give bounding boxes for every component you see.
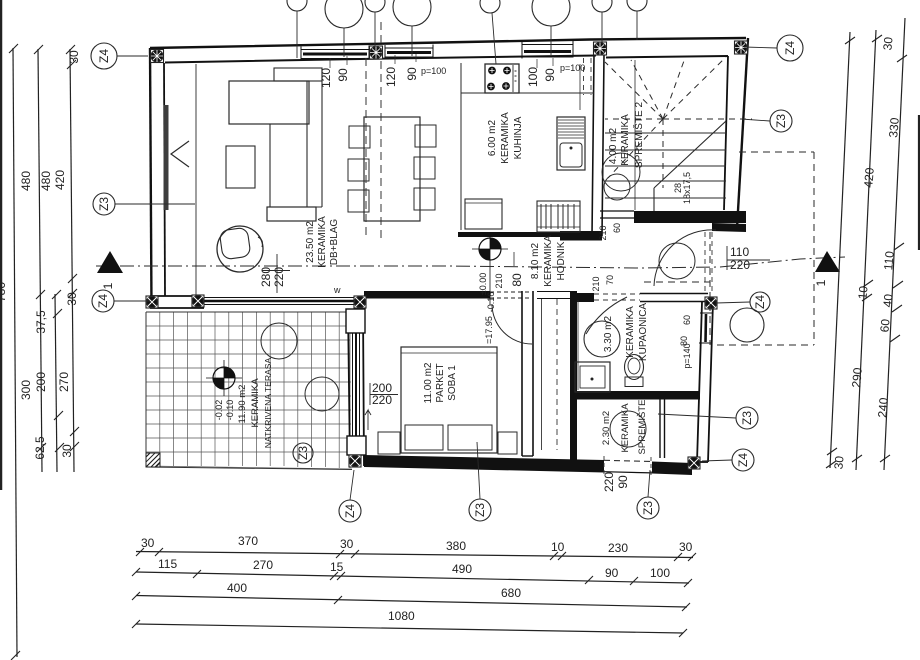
svg-text:Z3: Z3 bbox=[473, 503, 487, 517]
svg-text:15: 15 bbox=[330, 560, 344, 574]
svg-text:Z4: Z4 bbox=[736, 453, 750, 467]
svg-text:23.50 m2: 23.50 m2 bbox=[305, 221, 316, 263]
svg-text:680: 680 bbox=[501, 586, 521, 600]
svg-text:-0.02: -0.02 bbox=[214, 400, 224, 421]
svg-text:10: 10 bbox=[551, 540, 565, 554]
svg-text:=17.95: =17.95 bbox=[484, 316, 494, 344]
svg-text:210: 210 bbox=[591, 276, 601, 291]
svg-text:30: 30 bbox=[60, 444, 74, 458]
svg-text:Z3: Z3 bbox=[641, 501, 655, 515]
svg-text:30: 30 bbox=[831, 455, 846, 470]
svg-text:1080: 1080 bbox=[388, 609, 415, 623]
svg-text:60: 60 bbox=[877, 318, 892, 333]
svg-text:90: 90 bbox=[543, 68, 557, 82]
svg-text:110: 110 bbox=[730, 245, 749, 259]
svg-text:KUHINJA: KUHINJA bbox=[513, 116, 524, 159]
svg-text:70: 70 bbox=[605, 275, 615, 285]
svg-text:115: 115 bbox=[158, 557, 177, 571]
svg-text:KERAMIKA: KERAMIKA bbox=[543, 235, 554, 287]
svg-text:6.00 m2: 6.00 m2 bbox=[487, 119, 498, 156]
svg-text:380: 380 bbox=[446, 539, 466, 553]
svg-text:KERAMIKA: KERAMIKA bbox=[250, 378, 261, 428]
svg-text:10: 10 bbox=[855, 285, 870, 300]
svg-text:KERAMIKA: KERAMIKA bbox=[620, 114, 631, 166]
svg-text:PARKET: PARKET bbox=[435, 363, 446, 402]
svg-text:60: 60 bbox=[682, 315, 692, 325]
svg-text:480: 480 bbox=[39, 171, 53, 191]
svg-text:Z4: Z4 bbox=[783, 41, 797, 55]
svg-text:Z3: Z3 bbox=[296, 446, 310, 460]
svg-text:p=100: p=100 bbox=[560, 63, 585, 73]
svg-text:30: 30 bbox=[340, 537, 354, 551]
svg-text:220: 220 bbox=[272, 267, 286, 287]
svg-text:300: 300 bbox=[19, 380, 33, 400]
svg-text:NATKRIVENA TERASA: NATKRIVENA TERASA bbox=[263, 358, 273, 449]
svg-text:270: 270 bbox=[57, 372, 71, 392]
svg-text:1: 1 bbox=[101, 282, 115, 289]
svg-text:60: 60 bbox=[612, 223, 622, 233]
svg-text:330: 330 bbox=[886, 117, 902, 138]
svg-text:p=140: p=140 bbox=[682, 343, 692, 368]
svg-text:420: 420 bbox=[53, 170, 67, 190]
svg-text:220: 220 bbox=[372, 393, 392, 407]
svg-text:11.90 m2: 11.90 m2 bbox=[237, 385, 248, 424]
svg-text:8.10 m2: 8.10 m2 bbox=[530, 242, 541, 279]
svg-text:w: w bbox=[333, 285, 341, 295]
svg-text:18x17,5: 18x17,5 bbox=[682, 172, 692, 204]
svg-text:80: 80 bbox=[510, 273, 524, 287]
svg-text:37,5: 37,5 bbox=[34, 310, 48, 334]
svg-text:30: 30 bbox=[880, 36, 895, 51]
svg-text:Z3: Z3 bbox=[774, 114, 788, 128]
svg-text:KERAMIKA: KERAMIKA bbox=[625, 306, 636, 358]
svg-text:30: 30 bbox=[141, 536, 155, 550]
svg-text:SPREMIŠTE 2: SPREMIŠTE 2 bbox=[632, 102, 645, 169]
svg-text:40: 40 bbox=[880, 293, 895, 308]
svg-text:30: 30 bbox=[65, 292, 79, 306]
svg-text:110: 110 bbox=[881, 250, 897, 271]
svg-text:90: 90 bbox=[616, 475, 630, 489]
svg-text:1: 1 bbox=[814, 279, 828, 286]
svg-text:DB+BLAG: DB+BLAG bbox=[329, 219, 340, 266]
svg-text:Z3: Z3 bbox=[97, 197, 111, 211]
svg-text:KUPAONICA: KUPAONICA bbox=[638, 303, 649, 361]
svg-text:100: 100 bbox=[650, 566, 670, 580]
svg-text:480: 480 bbox=[19, 171, 33, 191]
svg-text:370: 370 bbox=[238, 534, 258, 548]
svg-text:4.00 m2: 4.00 m2 bbox=[608, 127, 619, 164]
svg-text:200: 200 bbox=[34, 372, 48, 392]
svg-text:KERAMIKA: KERAMIKA bbox=[500, 112, 511, 164]
svg-text:120: 120 bbox=[319, 68, 333, 88]
svg-text:Z3: Z3 bbox=[740, 411, 754, 425]
svg-text:Z4: Z4 bbox=[97, 49, 111, 63]
svg-text:2.30 m2: 2.30 m2 bbox=[601, 411, 612, 445]
svg-text:490: 490 bbox=[452, 562, 472, 576]
svg-text:780: 780 bbox=[0, 282, 8, 302]
svg-text:120: 120 bbox=[384, 67, 398, 87]
svg-text:400: 400 bbox=[227, 581, 247, 595]
svg-text:90: 90 bbox=[605, 566, 619, 580]
svg-text:90: 90 bbox=[336, 68, 350, 82]
svg-text:420: 420 bbox=[861, 167, 877, 188]
svg-text:30: 30 bbox=[679, 540, 693, 554]
svg-text:-0.16: -0.16 bbox=[486, 292, 496, 313]
svg-text:210: 210 bbox=[598, 225, 608, 240]
svg-text:p=100: p=100 bbox=[421, 66, 446, 76]
svg-text:3.30 m2: 3.30 m2 bbox=[603, 315, 614, 352]
svg-text:-0.10: -0.10 bbox=[225, 400, 235, 421]
svg-text:100: 100 bbox=[526, 67, 540, 87]
svg-text:HODNIK: HODNIK bbox=[556, 241, 567, 280]
svg-text:KERAMIKA: KERAMIKA bbox=[317, 216, 328, 268]
svg-text:270: 270 bbox=[253, 558, 273, 572]
svg-text:62,5: 62,5 bbox=[33, 436, 47, 460]
svg-text:Z4: Z4 bbox=[96, 294, 110, 308]
svg-text:280: 280 bbox=[259, 267, 273, 287]
svg-text:290: 290 bbox=[849, 367, 865, 388]
svg-text:KERAMIKA: KERAMIKA bbox=[620, 403, 631, 453]
svg-text:SOBA 1: SOBA 1 bbox=[447, 365, 458, 401]
svg-text:90: 90 bbox=[405, 67, 419, 81]
svg-text:210: 210 bbox=[494, 273, 504, 288]
svg-text:SPREMIŠTE: SPREMIŠTE bbox=[637, 400, 648, 455]
svg-text:28: 28 bbox=[673, 183, 683, 193]
svg-text:11.00 m2: 11.00 m2 bbox=[423, 362, 434, 403]
svg-text:30: 30 bbox=[67, 50, 81, 64]
svg-text:220: 220 bbox=[602, 472, 616, 492]
svg-text:Z4: Z4 bbox=[753, 295, 767, 309]
svg-text:240: 240 bbox=[875, 397, 891, 418]
svg-text:Z4: Z4 bbox=[343, 504, 357, 518]
svg-text:230: 230 bbox=[608, 541, 628, 555]
